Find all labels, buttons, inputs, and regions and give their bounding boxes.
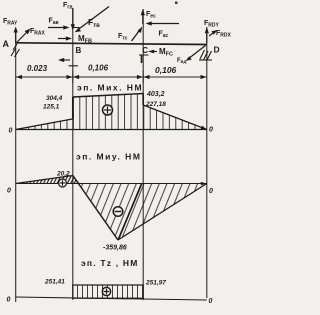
force F_RAX (diagonal reaction at A) xyxy=(16,31,29,44)
force F_aC (axial force at C, rightward) xyxy=(148,23,179,25)
Mx diagram hatched area A-B xyxy=(16,119,73,130)
svg-text:B: B xyxy=(76,46,82,55)
moment M_FB arrow xyxy=(58,38,69,40)
projection line C xyxy=(142,9,144,300)
force F_tC (tangential force at C, diagonal up) xyxy=(132,29,141,41)
My descending line B to min xyxy=(73,176,118,241)
dim tick at C xyxy=(142,71,144,83)
Mx rising line A-B xyxy=(16,119,73,130)
Mx jump at B xyxy=(72,97,74,120)
svg-text:0: 0 xyxy=(209,127,213,134)
svg-text:251,97: 251,97 xyxy=(145,280,166,287)
Mx diagram baseline xyxy=(16,129,207,131)
My baseline xyxy=(16,183,207,185)
Mx declining line C-D xyxy=(143,105,207,130)
dimension line xyxy=(16,76,207,78)
svg-text:D: D xyxy=(214,45,220,55)
force F_RD (diagonal from D to lower-left) xyxy=(188,46,206,60)
My negative hatched triangle xyxy=(80,184,207,240)
projection line B xyxy=(72,8,74,300)
bold C line segment below beam xyxy=(141,55,143,63)
dim tick at B xyxy=(72,71,74,83)
svg-text:0: 0 xyxy=(209,188,213,195)
small left arrow below beam at B xyxy=(61,59,70,61)
svg-text:эп. Миx. НМ: эп. Миx. НМ xyxy=(77,83,143,93)
svg-text:0,106: 0,106 xyxy=(88,64,109,73)
scan speck xyxy=(175,2,178,5)
My rising line min to D xyxy=(118,184,207,241)
svg-text:0: 0 xyxy=(7,297,11,304)
beam axis A-D xyxy=(16,43,207,45)
svg-text:-359,86: -359,86 xyxy=(103,245,127,252)
Mx diagram hatched area C-D xyxy=(143,105,207,130)
svg-text:Fвд: Fвд xyxy=(177,58,186,64)
support hatch at D xyxy=(199,50,212,60)
projection line A xyxy=(15,30,17,302)
Mx top edge B-C xyxy=(73,94,143,98)
My positive hatched triangle xyxy=(16,176,80,184)
svg-text:0: 0 xyxy=(209,298,213,305)
svg-text:C: C xyxy=(142,46,148,55)
svg-text:403,2: 403,2 xyxy=(146,91,165,98)
Mx plus sign in circle xyxy=(103,105,113,115)
svg-text:0: 0 xyxy=(7,188,11,195)
force F_rB (radial force at B, downward) xyxy=(72,8,74,26)
My minus in circle xyxy=(113,207,123,217)
My rising line A-B xyxy=(16,176,73,184)
svg-text:0: 0 xyxy=(9,128,13,135)
projection line D xyxy=(206,27,208,298)
Mx jump at C xyxy=(142,94,144,106)
paper background xyxy=(0,0,238,315)
force F_RDX (small diagonal at D) xyxy=(209,32,215,37)
svg-text:0,106: 0,106 xyxy=(155,65,177,75)
force F_rC (radial force at C, upward) xyxy=(142,12,144,25)
My ordinate line at C to min xyxy=(118,184,141,240)
svg-text:эп. Тz , НМ: эп. Тz , НМ xyxy=(81,258,139,268)
svg-text:227,18: 227,18 xyxy=(145,101,166,108)
support hatch at A xyxy=(11,44,20,57)
Mx diagram hatched area B-C xyxy=(73,94,143,130)
moment M_FC arrow xyxy=(151,51,158,53)
dim arrowheads xyxy=(16,75,207,79)
Tz baseline xyxy=(16,297,207,300)
force F_tB (tangential force at B, diagonal) xyxy=(78,7,110,31)
Tz plus in circle xyxy=(102,287,110,295)
svg-text:эп. Миy. НМ: эп. Миy. НМ xyxy=(76,152,141,162)
svg-text:0.023: 0.023 xyxy=(27,64,48,73)
Tz hatched rectangle B-C xyxy=(73,285,143,298)
My small plus in circle xyxy=(59,179,67,187)
force F_RDY (vertical reaction at D) xyxy=(206,30,208,43)
svg-text:304,4: 304,4 xyxy=(46,95,63,102)
svg-text:125,1: 125,1 xyxy=(43,104,60,111)
tick across B line xyxy=(69,65,79,67)
svg-text:20,2: 20,2 xyxy=(56,171,70,178)
force F_aB (axial force at B, rightward) xyxy=(48,27,66,29)
svg-text:251,41: 251,41 xyxy=(44,279,65,286)
force F_RAY (vertical reaction at A) xyxy=(15,29,17,43)
svg-text:A: A xyxy=(3,39,10,49)
